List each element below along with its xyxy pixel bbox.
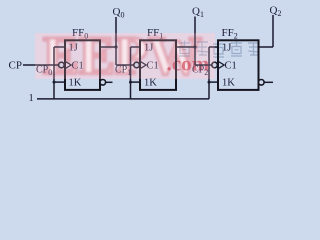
svg-text:1K: 1K	[222, 78, 235, 89]
wire: FF0 Qbar stub	[106, 81, 113, 83]
watermark translucent tint over circuit in band area	[35, 33, 215, 79]
FF0 clock edge triangle	[65, 61, 71, 68]
FF2 clock edge triangle	[218, 61, 224, 68]
node: Q0 junction	[114, 45, 117, 48]
node: FF1 K junction	[129, 81, 132, 84]
wire: FF2 J stub	[209, 46, 218, 48]
watermark char 2	[196, 42, 209, 55]
wire: FF2 J/K tie vertical	[208, 47, 210, 99]
FF1 clock edge triangle	[140, 61, 146, 68]
wire: FF1 J/K tie vertical	[130, 47, 132, 99]
node: FF2 K junction	[208, 81, 211, 84]
svg-text:1K: 1K	[69, 78, 82, 89]
wire: FF2 K stub	[209, 81, 218, 83]
wire: Q2 net (FF2 Q to top label)	[259, 15, 274, 47]
FF0 Qbar output bubble	[100, 80, 106, 86]
watermark char 3	[213, 41, 224, 58]
watermark char 1	[179, 41, 190, 57]
wire: FF0 J stub	[54, 46, 65, 48]
svg-text:1K: 1K	[144, 78, 157, 89]
wire: Q1 net (FF1 Q to top label and FF2 clock)	[176, 17, 212, 66]
FF2 clock inversion bubble	[212, 62, 218, 68]
wire: CP input	[23, 64, 59, 66]
FF0 clock inversion bubble	[59, 62, 65, 68]
wire: Q0 net (FF0 Q to top label and FF1 clock)	[100, 17, 134, 65]
svg-text:C1: C1	[225, 61, 237, 72]
watermark big letters EEPW	[43, 26, 202, 86]
FF2 Qbar output bubble	[259, 80, 265, 86]
wire: FF2 Qbar stub	[264, 81, 273, 83]
flip-flop FF2 box	[218, 40, 259, 90]
wire: logic-1 bottom rail	[37, 98, 209, 100]
flip-flop FF1 box	[140, 40, 176, 90]
wire: FF0 J/K tie vertical	[53, 47, 55, 99]
watermark chinese characters (stroke clusters)	[179, 41, 259, 58]
watermark char 4	[231, 41, 242, 57]
wire: FF1 J stub	[131, 46, 141, 48]
watermark char 5	[248, 43, 259, 55]
svg-text:1J: 1J	[222, 43, 231, 54]
wire: FF0 K stub	[54, 81, 65, 83]
svg-text:CP: CP	[9, 60, 22, 72]
wire: FF1 K stub	[131, 81, 141, 83]
node: FF0 K junction	[53, 81, 56, 84]
watermark pink band	[35, 33, 215, 79]
flip-flop FF0 box	[65, 40, 100, 90]
svg-text:1: 1	[29, 93, 34, 104]
node: Q1 junction	[193, 45, 196, 48]
FF1 clock inversion bubble	[134, 62, 140, 68]
